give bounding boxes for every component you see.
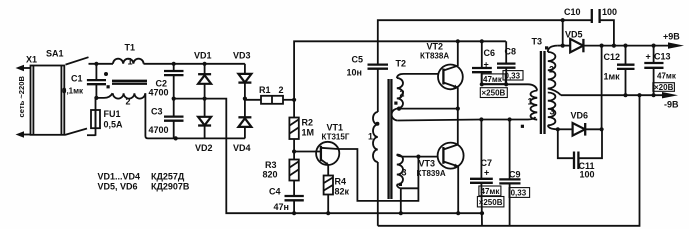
svg-text:3: 3 (550, 107, 555, 117)
transformer T1 (104, 43, 147, 107)
wire: T2-W3 bottom to minus rail (400, 188, 402, 213)
wire: VT3 emitter to minus rail (457, 166, 459, 213)
svg-text:VD4: VD4 (233, 143, 251, 153)
switch SA1 (46, 49, 89, 135)
svg-text:47мк: 47мк (481, 187, 501, 196)
wire: fuse junction to T1 winding 2 (96, 93, 112, 98)
wire: VT2 emitter to VT3 collector (457, 88, 459, 146)
svg-text:VT3: VT3 (419, 159, 436, 169)
svg-text:×250В: ×250В (482, 89, 506, 98)
wire: VT2 collector riser (457, 41, 459, 66)
svg-text:1: 1 (528, 97, 533, 107)
capacitor C9 (499, 120, 529, 226)
svg-text:2: 2 (400, 89, 405, 99)
transformer T3 (521, 37, 561, 135)
diode VD6 (558, 111, 602, 136)
svg-text:0,5А: 0,5А (104, 120, 124, 130)
svg-text:82к: 82к (335, 187, 350, 197)
svg-text:47н: 47н (274, 202, 289, 212)
output -9V (662, 92, 679, 110)
svg-text:Т2: Т2 (396, 59, 407, 69)
wire: T2-W3 top to VT3 base (397, 155, 438, 157)
svg-text:R3: R3 (265, 160, 277, 170)
svg-text:R4: R4 (335, 177, 347, 187)
svg-text:FU1: FU1 (104, 109, 121, 119)
svg-text:С4: С4 (269, 187, 281, 197)
wire: +DC riser and top feed line (294, 41, 506, 100)
svg-text:КД257Д: КД257Д (151, 172, 185, 182)
capacitor C10 (563, 7, 617, 46)
svg-text:0,33: 0,33 (505, 71, 521, 80)
svg-text:1: 1 (128, 57, 133, 67)
svg-text:×20В: ×20В (654, 83, 674, 92)
capacitor C12 (604, 46, 635, 96)
svg-text:2: 2 (549, 65, 554, 75)
resistor R3 (263, 152, 299, 197)
svg-text:100: 100 (580, 170, 595, 180)
svg-text:VT2: VT2 (427, 42, 444, 52)
capacitor C1 (62, 64, 106, 98)
capacitor C5 (347, 55, 389, 113)
svg-text:+9В: +9В (663, 32, 680, 42)
diode VD5 (557, 30, 602, 53)
resistor R2 (289, 100, 314, 152)
capacitor C3 (149, 99, 184, 139)
svg-text:C12: C12 (604, 52, 621, 62)
svg-text:10н: 10н (347, 68, 362, 78)
diode VD1 (194, 51, 212, 117)
svg-text:820: 820 (263, 170, 278, 180)
wire: half-bridge midline (397, 117, 535, 121)
svg-text:47мк: 47мк (657, 72, 677, 81)
capacitor C2 (149, 64, 184, 99)
svg-text:VD6: VD6 (571, 111, 589, 121)
svg-text:VT1: VT1 (327, 123, 344, 133)
wire: feedback top wire (T2-W1/C5 riser and C10 line) (378, 20, 592, 64)
output +9V (663, 32, 684, 49)
svg-text:+: + (484, 60, 489, 70)
svg-text:4700: 4700 (149, 88, 169, 98)
wire: -9V rail (T3 tap) (561, 94, 670, 96)
transistor VT1 (294, 123, 350, 176)
svg-text:VD2: VD2 (195, 143, 213, 153)
svg-text:47мк: 47мк (483, 75, 503, 84)
capacitor C6 (472, 41, 507, 97)
svg-text:1М: 1М (302, 128, 315, 138)
svg-text:С9: С9 (509, 170, 521, 180)
svg-text:C10: C10 (564, 7, 581, 17)
wire: VT1 collector to VT3 base node (338, 149, 418, 201)
wire: T2-W2 top to VT2 base (397, 74, 439, 78)
wire: top rail T1 to bridge (144, 63, 245, 65)
svg-text:+: + (646, 52, 651, 62)
capacitor C13 (644, 46, 677, 96)
svg-text:R1: R1 (259, 85, 271, 95)
capacitor C4 (269, 187, 304, 214)
svg-text:С3: С3 (151, 107, 163, 117)
note: diode types (98, 172, 190, 192)
resistor R4 (324, 176, 350, 214)
wire: +9V rail (602, 45, 677, 47)
transistor VT2 (420, 42, 463, 90)
svg-text:КТ315Г: КТ315Г (322, 133, 350, 142)
svg-text:С5: С5 (352, 55, 364, 65)
capacitor C11 (558, 129, 602, 179)
svg-text:0,33: 0,33 (511, 189, 527, 198)
capacitor C8 (497, 41, 523, 84)
svg-text:КТ838А: КТ838А (420, 52, 449, 61)
svg-text:+: + (484, 168, 489, 178)
wire: T1 winding 2 down to AC2 line (145, 93, 175, 138)
svg-text:1мк: 1мк (604, 72, 621, 82)
wire: bottom mains wire SA1 to fuse (87, 134, 96, 136)
svg-text:1: 1 (368, 132, 373, 142)
diode VD2 (195, 117, 213, 153)
svg-text:2: 2 (126, 97, 131, 107)
svg-text:X1: X1 (26, 55, 37, 65)
svg-text:100: 100 (602, 7, 617, 17)
svg-text:C1: C1 (71, 74, 83, 84)
svg-text:Т3: Т3 (532, 37, 543, 47)
connector X1 (16, 55, 65, 138)
svg-text:сеть ~220В: сеть ~220В (17, 76, 26, 118)
svg-text:VD3: VD3 (233, 51, 251, 61)
svg-text:VD1...VD4: VD1...VD4 (98, 172, 141, 182)
svg-text:КД2907В: КД2907В (151, 182, 190, 192)
wire: T2-W3 bottom link (401, 187, 419, 189)
svg-text:С7: С7 (481, 158, 493, 168)
transistor VT3 (417, 143, 464, 178)
svg-text:2: 2 (279, 85, 284, 95)
fuse FU1 (91, 98, 123, 136)
resistor R1 (245, 85, 294, 104)
svg-text:4700: 4700 (149, 125, 169, 135)
svg-text:×250В: ×250В (479, 198, 503, 207)
wire: top mains rail (89, 63, 114, 65)
svg-text:SA1: SA1 (46, 49, 64, 59)
wire: minus rail (mid rail to bottom rail) (174, 99, 483, 214)
diode VD4 (233, 99, 251, 153)
transformer T2 (368, 59, 407, 226)
svg-text:3: 3 (402, 168, 407, 178)
svg-text:КТ839А: КТ839А (417, 169, 446, 178)
svg-text:Т1: Т1 (125, 43, 136, 53)
svg-text:0,1мк: 0,1мк (62, 87, 84, 96)
wire: bottom return line (378, 95, 640, 226)
svg-text:R2: R2 (302, 118, 314, 128)
svg-text:VD5, VD6: VD5, VD6 (98, 182, 138, 192)
svg-text:VD5: VD5 (565, 30, 583, 40)
wire: T2-W2 tap to VT2 emitter (399, 108, 458, 110)
wire: AC2 line under bridge (176, 137, 245, 139)
svg-text:VD1: VD1 (194, 51, 212, 61)
wire: VD6 cathode riser (601, 46, 603, 130)
wire: node A line to T3-W1 top (482, 84, 537, 90)
svg-text:С6: С6 (484, 48, 496, 58)
svg-text:C8: C8 (505, 47, 517, 57)
diode VD3 (233, 51, 251, 99)
svg-text:C13: C13 (654, 52, 671, 62)
svg-text:-9В: -9В (664, 100, 679, 110)
capacitor C7 (470, 120, 504, 226)
